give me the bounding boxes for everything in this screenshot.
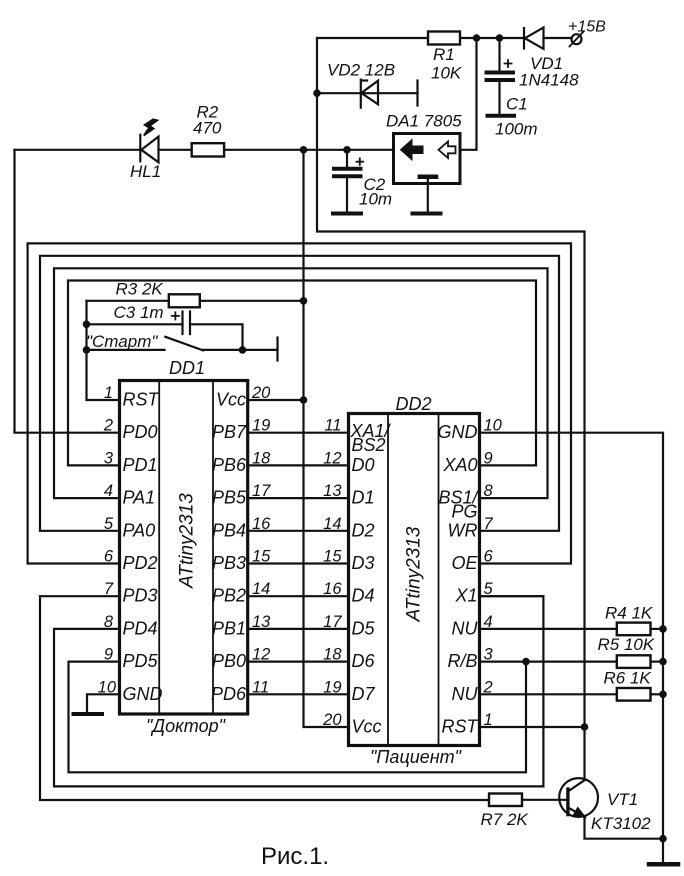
svg-text:"Старт": "Старт" <box>86 332 158 351</box>
svg-text:PB1: PB1 <box>212 618 246 638</box>
svg-text:PB7: PB7 <box>212 422 247 442</box>
svg-text:DD2: DD2 <box>396 394 432 414</box>
svg-text:11: 11 <box>324 417 341 435</box>
svg-text:RST: RST <box>123 390 161 410</box>
svg-text:3: 3 <box>104 449 114 467</box>
svg-text:9: 9 <box>484 449 493 467</box>
svg-text:PB5: PB5 <box>212 488 247 508</box>
svg-text:NU: NU <box>452 684 479 704</box>
svg-text:6: 6 <box>484 548 494 566</box>
svg-text:R1: R1 <box>433 45 455 64</box>
svg-text:D6: D6 <box>352 651 376 671</box>
svg-text:D1: D1 <box>352 488 375 508</box>
svg-text:Vcc: Vcc <box>216 390 246 410</box>
svg-text:PD3: PD3 <box>123 586 158 606</box>
svg-text:16: 16 <box>252 515 271 533</box>
svg-text:ATtiny2313: ATtiny2313 <box>177 493 198 589</box>
svg-text:C3 1m: C3 1m <box>114 303 164 322</box>
svg-text:R/B: R/B <box>447 651 477 671</box>
svg-text:7: 7 <box>484 515 494 533</box>
svg-text:GND: GND <box>438 422 478 442</box>
svg-text:PB2: PB2 <box>212 586 246 606</box>
svg-text:C1: C1 <box>506 95 528 114</box>
svg-text:13: 13 <box>323 482 342 500</box>
svg-text:PD2: PD2 <box>123 553 158 573</box>
svg-text:KT3102: KT3102 <box>591 814 651 833</box>
svg-text:PB3: PB3 <box>212 553 246 573</box>
svg-text:XA0: XA0 <box>442 455 477 475</box>
svg-text:10m: 10m <box>359 190 392 209</box>
svg-text:PB4: PB4 <box>212 520 246 540</box>
svg-text:18: 18 <box>252 449 271 467</box>
svg-text:10K: 10K <box>431 64 462 83</box>
svg-text:4: 4 <box>104 482 113 500</box>
svg-text:D2: D2 <box>352 520 375 540</box>
svg-text:D5: D5 <box>352 618 376 638</box>
svg-text:15: 15 <box>323 548 342 566</box>
svg-text:15: 15 <box>252 548 271 566</box>
svg-text:WR: WR <box>448 520 478 540</box>
svg-text:+15B: +15B <box>568 19 606 36</box>
svg-text:1: 1 <box>484 711 493 729</box>
svg-text:PD5: PD5 <box>123 651 159 671</box>
svg-text:D7: D7 <box>352 684 376 704</box>
svg-text:RST: RST <box>442 717 480 737</box>
svg-text:100m: 100m <box>495 120 538 139</box>
svg-text:5: 5 <box>484 580 494 598</box>
svg-text:Рис.1.: Рис.1. <box>261 843 329 870</box>
svg-text:ATtiny2313: ATtiny2313 <box>404 526 425 622</box>
svg-text:20: 20 <box>322 711 342 729</box>
svg-text:"Пациент": "Пациент" <box>370 747 463 767</box>
svg-text:18: 18 <box>323 646 342 664</box>
svg-text:PD4: PD4 <box>123 618 158 638</box>
svg-text:PB6: PB6 <box>212 455 247 475</box>
svg-text:NU: NU <box>452 618 479 638</box>
svg-text:470: 470 <box>193 119 222 138</box>
svg-text:PD1: PD1 <box>123 455 158 475</box>
svg-text:R7 2K: R7 2K <box>481 810 529 829</box>
svg-text:17: 17 <box>323 613 342 631</box>
svg-text:DD1: DD1 <box>169 358 205 378</box>
svg-text:PA1: PA1 <box>123 488 156 508</box>
svg-text:D3: D3 <box>352 553 375 573</box>
svg-text:PD6: PD6 <box>211 684 247 704</box>
svg-text:14: 14 <box>323 515 341 533</box>
svg-text:9: 9 <box>104 646 113 664</box>
svg-text:12: 12 <box>323 449 341 467</box>
svg-text:VD2 12B: VD2 12B <box>327 61 395 80</box>
svg-text:HL1: HL1 <box>130 162 161 181</box>
svg-text:20: 20 <box>251 384 271 402</box>
svg-text:8: 8 <box>104 613 114 631</box>
svg-text:R3 2K: R3 2K <box>116 280 164 299</box>
svg-text:13: 13 <box>252 613 271 631</box>
svg-text:3: 3 <box>484 646 494 664</box>
svg-text:D0: D0 <box>352 455 375 475</box>
svg-text:R5 10K: R5 10K <box>598 635 655 654</box>
svg-text:7: 7 <box>104 580 114 598</box>
svg-text:11: 11 <box>252 678 269 696</box>
svg-text:"Доктор": "Доктор" <box>146 716 227 736</box>
svg-text:19: 19 <box>252 417 270 435</box>
svg-text:R6 1K: R6 1K <box>604 669 652 688</box>
svg-text:VT1: VT1 <box>607 790 638 809</box>
svg-text:GND: GND <box>123 684 163 704</box>
svg-text:1N4148: 1N4148 <box>519 71 579 90</box>
svg-text:PB0: PB0 <box>212 651 246 671</box>
svg-text:17: 17 <box>252 482 271 500</box>
svg-text:16: 16 <box>323 580 342 598</box>
svg-text:10: 10 <box>98 678 117 696</box>
svg-text:OE: OE <box>451 553 478 573</box>
svg-text:D4: D4 <box>352 586 375 606</box>
svg-text:2: 2 <box>103 417 113 435</box>
svg-text:6: 6 <box>104 548 114 566</box>
svg-text:BS2: BS2 <box>352 435 386 455</box>
svg-text:2: 2 <box>483 678 493 696</box>
svg-text:PA0: PA0 <box>123 520 156 540</box>
svg-text:1: 1 <box>104 384 113 402</box>
svg-text:R4 1K: R4 1K <box>605 604 653 623</box>
svg-text:19: 19 <box>323 678 341 696</box>
svg-text:5: 5 <box>104 515 114 533</box>
svg-text:14: 14 <box>252 580 270 598</box>
svg-text:8: 8 <box>484 482 494 500</box>
svg-text:12: 12 <box>252 646 270 664</box>
svg-text:X1: X1 <box>454 586 477 606</box>
svg-text:4: 4 <box>484 613 493 631</box>
svg-text:Vcc: Vcc <box>352 717 382 737</box>
svg-text:DA1 7805: DA1 7805 <box>386 112 462 131</box>
svg-text:PG: PG <box>451 502 477 522</box>
svg-text:PD0: PD0 <box>123 422 158 442</box>
svg-text:10: 10 <box>484 417 503 435</box>
